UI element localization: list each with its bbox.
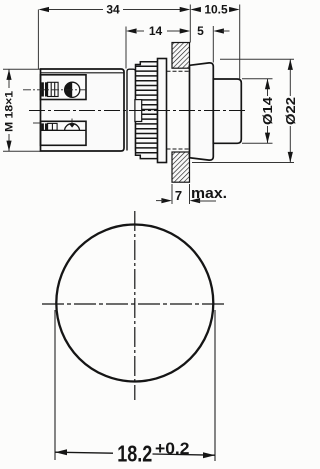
svg-text:18.2: 18.2 xyxy=(117,440,152,466)
svg-text:max.: max. xyxy=(191,185,227,202)
svg-text:7: 7 xyxy=(175,188,182,203)
svg-text:10.5: 10.5 xyxy=(204,3,228,17)
svg-text:M 18×1: M 18×1 xyxy=(3,91,15,132)
svg-text:5: 5 xyxy=(197,24,204,38)
svg-text:14: 14 xyxy=(149,24,163,38)
svg-text:34: 34 xyxy=(106,3,120,17)
svg-text:Ø14: Ø14 xyxy=(260,96,275,125)
svg-text:+0.2: +0.2 xyxy=(155,439,190,458)
svg-text:Ø22: Ø22 xyxy=(283,97,298,125)
